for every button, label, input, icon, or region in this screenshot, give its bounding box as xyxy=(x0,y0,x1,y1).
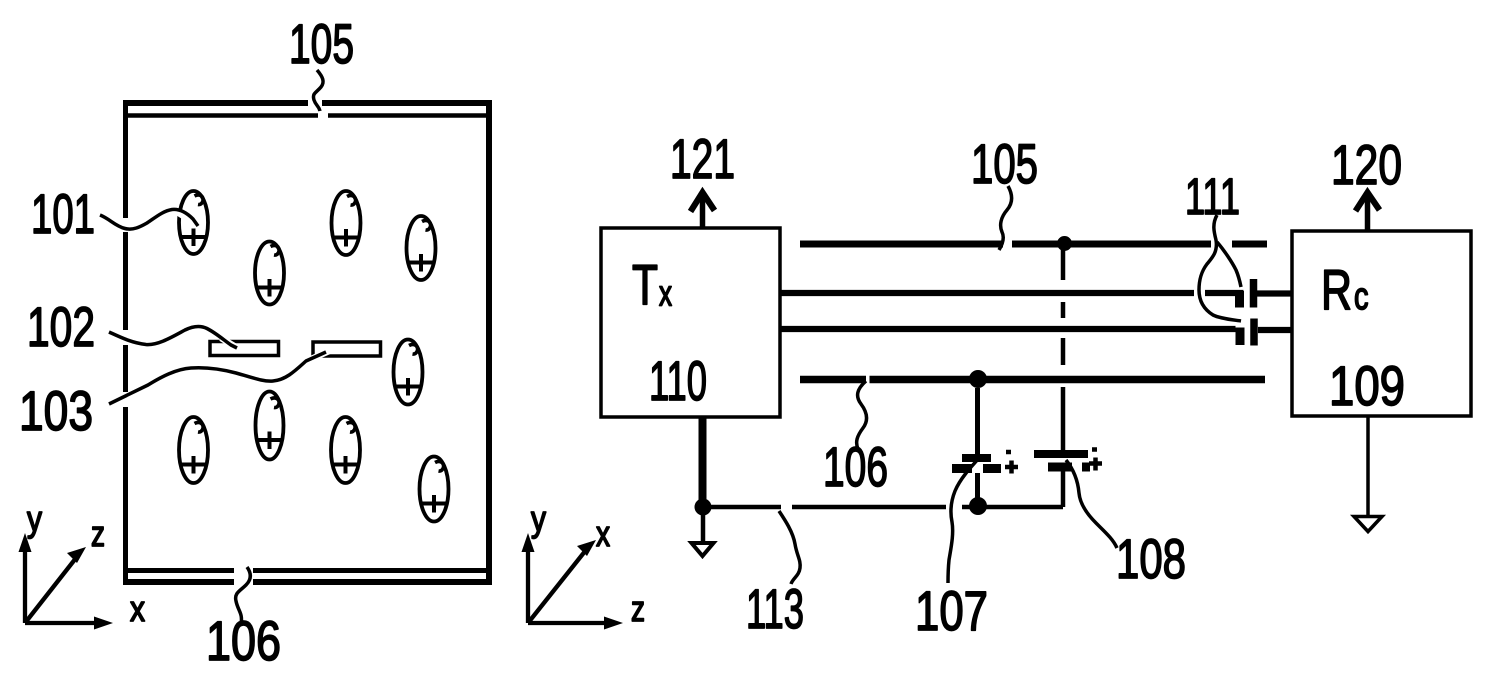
svg-text:103: 103 xyxy=(19,379,93,442)
electrode 103 xyxy=(313,342,381,356)
svg-text:111: 111 xyxy=(1185,168,1240,225)
Tx box 110 xyxy=(601,228,780,417)
x arrowhead xyxy=(94,617,113,630)
leader 105 right xyxy=(999,186,1012,250)
svg-text:y: y xyxy=(531,498,546,539)
wire line 2 xyxy=(780,290,1244,296)
molecule E4 xyxy=(407,216,436,280)
line 105 (top electrode) xyxy=(800,241,1267,248)
dashed line from 105 to capacitor 108 xyxy=(1061,250,1066,365)
Tx ground stem xyxy=(699,417,707,503)
z axis xyxy=(25,558,76,623)
wire line 2 right of capacitor xyxy=(1257,290,1292,296)
svg-text:109: 109 xyxy=(1329,354,1405,417)
capacitor 107 xyxy=(962,454,991,462)
molecule E7 xyxy=(256,392,284,460)
wire line 3 xyxy=(780,326,1236,332)
y axis xyxy=(526,550,530,623)
Rc box 109 xyxy=(1292,231,1471,416)
svg-text:108: 108 xyxy=(1116,527,1186,590)
z arrowhead xyxy=(604,617,623,630)
svg-text:c: c xyxy=(1354,276,1369,318)
Tx ground arrow xyxy=(692,543,714,556)
leader 111 xyxy=(1199,215,1241,321)
molecule E2 xyxy=(255,242,284,305)
bottom wire 113 xyxy=(703,505,1063,510)
molecule E1 xyxy=(179,191,208,254)
x axis xyxy=(528,550,586,623)
x axis xyxy=(25,621,100,625)
z axis xyxy=(528,621,610,625)
halo for leader 102 over electrode edge xyxy=(221,338,239,349)
svg-text:x: x xyxy=(596,513,610,554)
svg-text:101: 101 xyxy=(31,182,95,245)
svg-text:121: 121 xyxy=(670,127,735,190)
y arrowhead xyxy=(19,533,32,552)
x arrowhead xyxy=(577,540,596,556)
svg-text:120: 120 xyxy=(1331,133,1402,196)
svg-text:x: x xyxy=(659,273,672,314)
leader 105 top xyxy=(313,70,323,111)
junction on line 105 xyxy=(1057,236,1072,251)
halo for leader 101 over molecule E1 xyxy=(176,211,192,221)
electrode layer 106 inner bottom line xyxy=(123,568,492,573)
svg-text:102: 102 xyxy=(27,295,95,358)
right axes xyxy=(528,550,610,623)
line 106 (bottom electrode) xyxy=(800,376,1265,384)
leader 113 xyxy=(779,511,800,584)
molecule E5 xyxy=(394,340,423,405)
svg-text:105: 105 xyxy=(289,12,354,75)
svg-text:107: 107 xyxy=(915,579,988,642)
capacitor 107 polarity mark xyxy=(1005,452,1018,474)
leader 111 branch xyxy=(1217,242,1241,287)
lead to capacitor 108 xyxy=(1061,387,1066,450)
arrow 121 xyxy=(700,196,706,228)
svg-text:113: 113 xyxy=(746,577,804,640)
leader 107 xyxy=(948,457,980,583)
Rc ground lead xyxy=(1366,416,1370,516)
svg-text:z: z xyxy=(631,588,645,629)
capacitor 111 lower xyxy=(1236,328,1245,346)
Rc ground arrow xyxy=(1354,517,1382,532)
left axes xyxy=(25,550,100,623)
panel left border xyxy=(123,100,128,585)
halo for leader 103 over electrode edge xyxy=(309,351,329,360)
capacitor 108 xyxy=(1034,450,1088,458)
svg-text:z: z xyxy=(91,513,105,554)
capacitor 107 lead bottom xyxy=(975,473,980,500)
z arrowhead xyxy=(67,547,86,563)
wire line 3 right of capacitor xyxy=(1258,327,1292,333)
panel right border xyxy=(486,100,492,585)
panel top border (substrate, gap at 105 leader) xyxy=(123,100,492,106)
svg-text:105: 105 xyxy=(971,132,1038,195)
leader 108 xyxy=(1066,460,1117,548)
y axis xyxy=(23,550,27,623)
svg-text:106: 106 xyxy=(823,435,888,498)
y arrowhead xyxy=(522,533,535,552)
capacitor 108 lead bottom xyxy=(1061,472,1066,508)
capacitor 108 polarity mark xyxy=(1089,450,1102,471)
svg-text:106: 106 xyxy=(206,609,281,672)
svg-text:110: 110 xyxy=(649,349,707,412)
molecule E8 xyxy=(331,417,360,483)
junction on line 106 xyxy=(969,370,987,388)
capacitor 107 lead top xyxy=(975,388,980,454)
junction dot at Tx ground xyxy=(695,499,712,516)
molecule E6 xyxy=(179,417,208,483)
leader 106 bottom xyxy=(236,567,251,624)
capacitor 111 upper xyxy=(1235,291,1244,308)
molecule E9 xyxy=(420,457,449,522)
panel bottom border (gap at 106 leader) xyxy=(123,579,492,585)
arrow 120 xyxy=(1365,196,1371,231)
svg-text:R: R xyxy=(1321,258,1352,322)
svg-text:y: y xyxy=(27,498,42,539)
Tx ground lead xyxy=(701,511,706,542)
svg-text:T: T xyxy=(632,253,658,317)
molecule E3 xyxy=(332,191,361,255)
electrode layer 105 inner top line xyxy=(123,113,492,118)
svg-text:x: x xyxy=(130,588,145,629)
junction dot on bottom wire xyxy=(969,497,987,515)
leader 106 right xyxy=(857,381,867,449)
electrode 102 xyxy=(210,342,279,356)
